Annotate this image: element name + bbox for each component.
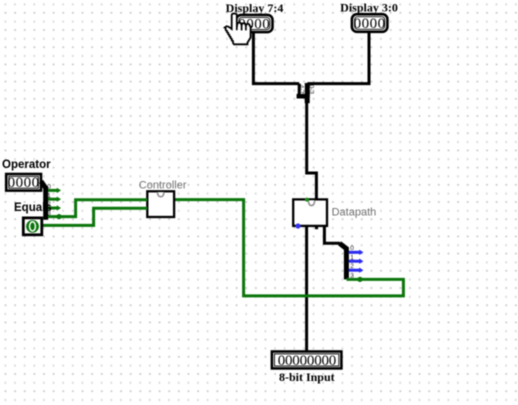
svg-text:0-3: 0-3 [308,85,315,95]
svg-text:Display 3:0: Display 3:0 [340,1,398,15]
svg-text:Operator: Operator [2,159,51,171]
svg-text:4-7: 4-7 [298,85,305,95]
input pin Operator [6,174,41,191]
solder dot at operator leg3 [56,214,61,219]
svg-text:0000: 0000 [354,16,386,32]
splitter S3 (operator bits) [41,181,61,220]
input pin 8-bit Input [272,352,342,369]
wire Datapath to splitter S2 [324,226,340,243]
svg-text:Equals: Equals [14,202,52,214]
solder dot at S2 leg3 [357,277,362,282]
wire from Display 3:0 down to splitter [307,32,369,84]
wire Datapath to 8-bit input pin [305,226,308,352]
wire operator bit3 to Controller input 1 [59,200,147,217]
svg-text:8-bit Input: 8-bit Input [279,370,335,384]
output pin Display 7:4 [236,15,272,32]
svg-text:0000: 0000 [8,175,40,191]
svg-text:Datapath: Datapath [332,207,377,219]
bus wire splitter to Datapath [307,102,317,199]
svg-text:00000000: 00000000 [278,353,336,369]
output pin Display 3:0 [352,14,388,32]
wire Equals button to Controller input 2 [42,208,147,225]
splitter S2 (datapath low nibble) [340,243,364,279]
wire from Display 7:4 down to splitter [253,32,299,84]
subcircuit Datapath [293,198,376,230]
svg-text:2: 2 [350,263,354,270]
svg-text:0: 0 [350,245,354,252]
button Equals [23,218,42,235]
splitter S1 (bus 8 into 4-7 / 0-3) [297,83,315,103]
mouse hand cursor [225,14,251,45]
svg-text:1: 1 [47,192,51,199]
svg-text:1: 1 [350,254,354,261]
subcircuit Controller [147,191,174,217]
svg-text:0: 0 [47,184,51,191]
green wire net: splitter S2 leg3 - loop - Controller output [174,200,403,296]
svg-text:Controller: Controller [139,179,187,191]
